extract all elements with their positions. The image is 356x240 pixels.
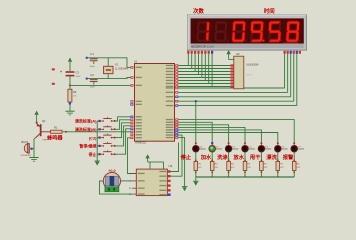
MCU U1 right pin boxes and inner pin labels	[166, 64, 179, 138]
transistor Q1	[40, 124, 42, 136]
7-seg digit 5 (5)	[268, 21, 284, 42]
wire button K3 to MCU P1.2	[115, 123, 131, 138]
ground (buttons)	[95, 160, 100, 162]
svg-text:洗涤: 洗涤	[217, 153, 228, 161]
ground (near U3)	[182, 186, 187, 188]
display right pins (digit commons)	[284, 51, 286, 54]
wire C3 to RST node	[69, 76, 71, 85]
node R1 right junction	[65, 131, 67, 133]
wire button ground rail	[96, 121, 98, 161]
wire resistor to bus	[277, 170, 279, 177]
wire resistor to bus	[260, 170, 262, 177]
motor driver U3 body	[136, 169, 167, 196]
push button K1	[97, 117, 115, 122]
svg-text:(C2): (C2)	[89, 135, 97, 140]
LED D4 (停止)	[193, 142, 206, 152]
wire button K2 to MCU P1.1	[115, 120, 131, 130]
wire to LED D4 (停止)	[195, 101, 197, 143]
wire resistor to bus	[244, 170, 246, 177]
LED D6 (洗涤)	[225, 142, 238, 152]
svg-text:Q1: Q1	[42, 119, 46, 123]
wire LED ground bus	[196, 176, 294, 178]
push button K2	[97, 125, 115, 130]
svg-text:清洗标准(A): 清洗标准(A)	[75, 118, 97, 124]
wire R1 to MCU P1.5	[62, 131, 130, 133]
push button K4	[97, 142, 115, 147]
7-seg digit 3 (0)	[232, 21, 248, 42]
7-segment display DS1 frame	[187, 15, 306, 50]
capacitor C2	[86, 78, 88, 80]
wire resistor to bus	[293, 170, 295, 177]
resistor R4	[227, 159, 235, 173]
LED D3 (甩干)	[258, 142, 271, 152]
wire RST to MCU pin 9	[70, 84, 130, 86]
svg-text:停止: 停止	[180, 153, 191, 161]
MCU U1 left pin boxes and inner pin labels	[130, 66, 141, 139]
MCU U1 AT89C51 body	[135, 64, 175, 142]
wire to LED D7 (报警)	[178, 120, 294, 144]
power VCC (U3)	[145, 154, 149, 158]
wire bus P0 to display segment pins and U2	[178, 54, 230, 87]
motor terminal block	[105, 187, 119, 192]
wire U3 pin to MCU (1)	[171, 143, 179, 172]
svg-text:停止: 停止	[89, 151, 97, 157]
svg-text:TEXT: TEXT	[246, 75, 252, 77]
power VCC (reset)	[68, 58, 72, 62]
7-seg digit 4 (9)	[250, 21, 266, 42]
svg-text:次数: 次数	[193, 7, 204, 15]
svg-text:C3: C3	[76, 71, 80, 75]
power VCC (buzzer)	[34, 111, 38, 115]
wire LED to resistor	[228, 152, 230, 161]
display left pins (segment pins)	[187, 51, 189, 54]
wire XTAL1 net	[87, 58, 131, 68]
LED D5 (漂洗)	[275, 142, 288, 152]
svg-text:U2: U2	[236, 52, 240, 56]
svg-text:AT89C51: AT89C51	[135, 141, 146, 145]
svg-text:放水: 放水	[232, 153, 244, 161]
7-seg digit 6 (8)	[286, 21, 302, 42]
svg-text:30pF: 30pF	[90, 87, 96, 89]
svg-text:C2: C2	[90, 73, 94, 77]
wire LED to resistor	[195, 152, 197, 161]
svg-text:C1: C1	[90, 52, 94, 56]
svg-text:蜂鸣器: 蜂鸣器	[47, 134, 63, 142]
LED D1 (加水)	[209, 142, 222, 152]
svg-text:U3: U3	[169, 164, 173, 168]
wire LED to resistor	[277, 152, 279, 161]
wire resistor to bus	[228, 170, 230, 177]
wire button K5 to MCU P1.4	[115, 129, 131, 154]
resistor R6	[243, 159, 251, 173]
wire LED to resistor	[293, 152, 295, 161]
driver U2 body	[234, 56, 244, 89]
resistor R3	[69, 85, 71, 89]
wire resistor to bus	[195, 170, 197, 177]
wire display digit commons to MCU (nested corners)	[178, 54, 296, 106]
svg-text:SOUNDER: SOUNDER	[21, 155, 32, 157]
wire LED to resistor	[211, 152, 213, 161]
U2 left pin boxes	[230, 64, 233, 87]
svg-text:时间: 时间	[264, 7, 275, 15]
wire XTAL2 net	[87, 78, 131, 79]
wire MCU to ground (right)	[178, 138, 184, 187]
resistor R2	[260, 159, 268, 173]
svg-text:清洗标准(B): 清洗标准(B)	[75, 126, 97, 132]
resistor R7	[276, 159, 284, 173]
ground (reset)	[65, 110, 74, 112]
resistor R1	[51, 130, 63, 133]
svg-text:报警: 报警	[283, 153, 294, 161]
node Q1 emitter	[36, 122, 38, 124]
wire LED to resistor	[244, 152, 246, 161]
LED D2 (放水)	[242, 142, 255, 152]
7-segment display DS1 inner panel	[191, 18, 304, 43]
display frame bottom strip	[191, 44, 304, 48]
wire button K1 to MCU P1.0	[115, 117, 131, 121]
wire button K4 to MCU P1.3	[115, 126, 131, 146]
svg-text:R3: R3	[73, 90, 77, 94]
7-seg digit 1 (1)	[196, 21, 212, 41]
svg-text:甩干: 甩干	[250, 153, 261, 161]
LED D7 (报警)	[291, 142, 304, 152]
svg-text:+: +	[60, 70, 62, 74]
resistor R8	[292, 159, 300, 173]
ground (buzzer)	[29, 157, 38, 159]
motor M1	[103, 172, 120, 189]
U3 right pins	[168, 170, 171, 172]
svg-text:R1: R1	[54, 125, 58, 129]
svg-text:7SEG-MPX6-CA: 7SEG-MPX6-CA	[283, 41, 299, 44]
wire LED to resistor	[260, 152, 262, 161]
svg-text:10uF: 10uF	[76, 76, 82, 78]
wire MCU P1.7 to U3 IN1	[128, 138, 137, 174]
resistor R5	[194, 159, 202, 173]
resistor R9	[210, 159, 218, 173]
wire staircase MCU P3 to LEDs 2-6	[178, 122, 277, 143]
svg-text:11.0592MHz: 11.0592MHz	[115, 68, 129, 71]
7-seg digit 2 (blank)	[214, 21, 230, 41]
capacitor C1	[86, 57, 88, 59]
svg-text:30pF: 30pF	[90, 66, 96, 68]
wire Q1 collector to buzzer/ground	[34, 137, 36, 139]
crystal X1	[107, 58, 109, 66]
svg-text:暂停/继续: 暂停/继续	[79, 143, 96, 149]
push button K5	[97, 150, 115, 155]
wire R3 to ground	[69, 105, 71, 112]
wire motor left to U3	[100, 181, 133, 194]
push button K3	[97, 134, 115, 139]
svg-text:ABCDEFG DP 1 2 3 4: ABCDEFG DP 1 2 3 4	[191, 46, 214, 49]
svg-text:X1: X1	[115, 62, 119, 66]
svg-text:加水: 加水	[200, 153, 212, 161]
wire resistor to bus	[211, 170, 213, 177]
power VCC (U2)	[226, 50, 230, 54]
svg-text:漂洗: 漂洗	[266, 153, 277, 161]
ground (LED bus)	[195, 177, 197, 181]
wire U3 pin to MCU (2)	[171, 135, 182, 176]
node RST junction	[69, 84, 71, 86]
U3 left pins	[132, 173, 136, 175]
node LED1 junction	[195, 100, 197, 102]
wire motor right to U3	[121, 180, 133, 182]
svg-text:ULN2003A: ULN2003A	[246, 63, 259, 66]
